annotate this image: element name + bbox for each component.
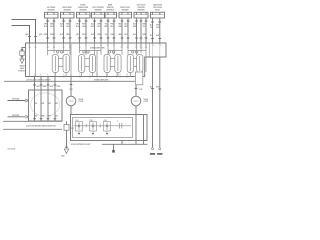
wire condenser 2 down xyxy=(135,106,137,115)
svg-text:UNDER: UNDER xyxy=(19,66,25,68)
svg-text:PNK: PNK xyxy=(69,89,73,91)
wire condenser 1 down xyxy=(70,106,72,115)
svg-text:WHT: WHT xyxy=(50,86,54,88)
left feed arrow 2 xyxy=(8,116,26,118)
svg-text:RIGHT REAR: RIGHT REAR xyxy=(62,6,72,9)
amp internal wires from pins xyxy=(30,44,147,77)
svg-text:11: 11 xyxy=(96,74,98,76)
svg-text:13: 13 xyxy=(106,74,108,76)
svg-text:BLK: BLK xyxy=(150,35,154,37)
svg-text:AUDIO UNIT (STEREO RADIO/CASSE: AUDIO UNIT (STEREO RADIO/CASSETTE) xyxy=(26,125,56,128)
svg-text:WHT: WHT xyxy=(156,25,160,27)
svg-text:WHT: WHT xyxy=(156,35,160,37)
svg-text:WHT: WHT xyxy=(82,24,86,26)
svg-text:C719: C719 xyxy=(139,89,143,91)
svg-text:5: 5 xyxy=(63,74,64,76)
speaker box B7 xyxy=(134,12,148,18)
pass-through wire in box (from N2) xyxy=(135,115,137,141)
svg-text:NOISE: NOISE xyxy=(144,99,150,101)
svg-text:15: 15 xyxy=(116,74,118,76)
speaker box B4 xyxy=(92,12,106,18)
sub-box F1 xyxy=(76,122,83,136)
svg-text:RED: RED xyxy=(57,86,61,88)
wire amp to radio 4 xyxy=(54,77,56,91)
connector dashes B6 xyxy=(121,20,130,22)
svg-text:92-1554: 92-1554 xyxy=(8,147,16,150)
svg-text:GRY: GRY xyxy=(34,103,38,105)
svg-text:YEL: YEL xyxy=(143,26,146,28)
internal bus xyxy=(74,125,132,127)
svg-text:SUBWOOFER: SUBWOOFER xyxy=(78,7,89,9)
svg-text:18: 18 xyxy=(153,45,155,47)
svg-text:YEL: YEL xyxy=(60,26,63,28)
sub-box F3 xyxy=(104,122,111,136)
svg-text:8: 8 xyxy=(54,74,55,76)
svg-text:COND: COND xyxy=(79,101,84,103)
svg-text:COND: COND xyxy=(144,101,149,103)
right wire R1 xyxy=(152,57,154,148)
out-of-page arrow xyxy=(20,59,24,64)
svg-text:LEFT DOOR: LEFT DOOR xyxy=(137,4,146,6)
svg-text:C: C xyxy=(117,121,119,123)
amp channel block 4 xyxy=(127,51,146,77)
speaker box B6 xyxy=(119,12,132,18)
svg-text:19: 19 xyxy=(160,45,162,47)
wire amp to radio 2 xyxy=(40,77,42,91)
svg-text:FUSE BOX: FUSE BOX xyxy=(18,70,27,72)
ground drop xyxy=(113,144,115,150)
radio wire labels mid xyxy=(34,103,59,105)
svg-text:WHT: WHT xyxy=(25,34,29,36)
wire amp to condenser 2 xyxy=(135,77,137,97)
svg-text:9: 9 xyxy=(89,74,90,76)
svg-text:BRN: BRN xyxy=(43,86,47,88)
connector C585 wire xyxy=(66,121,68,148)
branch connector to fuse box xyxy=(22,48,26,52)
relay step box divider xyxy=(148,43,150,57)
amplifier top pin numbers xyxy=(29,45,162,47)
terminal bars xyxy=(150,153,155,155)
condenser N2 xyxy=(131,96,141,106)
connector dashes B5 xyxy=(107,20,116,22)
ground dot xyxy=(112,150,115,153)
svg-text:WHT: WHT xyxy=(48,103,52,105)
svg-text:1: 1 xyxy=(70,74,71,76)
left feed wire B xyxy=(12,26,30,44)
dashes on radio wires xyxy=(33,84,56,86)
resistor mark R1 xyxy=(85,124,87,127)
svg-text:REAR WDW: REAR WDW xyxy=(153,3,162,6)
svg-text:RED: RED xyxy=(55,115,59,117)
wire amp to radio 3 xyxy=(47,77,49,91)
svg-text:RED: RED xyxy=(39,34,43,36)
svg-text:BRN: BRN xyxy=(41,103,45,105)
svg-text:WHT: WHT xyxy=(48,115,52,117)
svg-text:CH1: CH1 xyxy=(76,120,79,122)
svg-text:WINDOW: WINDOW xyxy=(107,7,114,9)
left feed arrow 1 xyxy=(8,100,26,102)
wire B7-c xyxy=(145,18,147,43)
speaker box B2 xyxy=(61,12,75,18)
svg-text:CH2: CH2 xyxy=(90,120,93,122)
svg-text:WHT: WHT xyxy=(82,34,86,36)
radio dial ellipse xyxy=(31,93,60,116)
svg-text:7: 7 xyxy=(79,74,80,76)
svg-text:YEL: YEL xyxy=(105,34,108,36)
out-of-page arrow C585 xyxy=(64,149,68,154)
svg-text:LOW VOLUME CONTROL CIRCUIT: LOW VOLUME CONTROL CIRCUIT xyxy=(26,79,50,81)
section rule xyxy=(4,80,137,82)
pass-through wire in box right xyxy=(143,115,145,141)
svg-text:YEL: YEL xyxy=(105,24,108,26)
svg-text:TWEETER: TWEETER xyxy=(137,7,145,9)
svg-text:WHT: WHT xyxy=(124,26,128,28)
svg-text:REAR: REAR xyxy=(108,3,113,6)
svg-text:NOISE: NOISE xyxy=(79,99,85,101)
svg-text:2: 2 xyxy=(34,74,35,76)
wire B6-a xyxy=(121,18,123,43)
wire amp to radio 1 xyxy=(34,77,36,91)
wire B2-a xyxy=(63,18,65,43)
wire B5-a xyxy=(107,18,109,43)
connector dashes B8 xyxy=(151,21,161,23)
arrow label xyxy=(18,66,27,73)
amplifier pin name smudges xyxy=(29,47,148,49)
radio bottom dashes xyxy=(33,118,56,120)
svg-text:RIGHT DOOR: RIGHT DOOR xyxy=(120,7,130,9)
svg-text:WHT: WHT xyxy=(50,26,54,28)
wire B1-a xyxy=(47,18,49,43)
wire B3-a xyxy=(79,18,81,43)
audio unit label band xyxy=(3,120,62,122)
svg-text:NOISE SUPPRESSOR UNIT: NOISE SUPPRESSOR UNIT xyxy=(71,144,90,146)
noise suppressor outer box xyxy=(71,115,148,141)
wire B7-a xyxy=(136,18,138,43)
radio unit box xyxy=(29,90,63,121)
svg-text:DEFOGGER: DEFOGGER xyxy=(153,7,163,9)
sub-box F2 xyxy=(90,122,97,136)
svg-text:GRY: GRY xyxy=(36,86,40,88)
svg-text:YEL: YEL xyxy=(150,27,153,29)
svg-text:WHEEL: WHEEL xyxy=(80,4,86,6)
connector dashes left feeds xyxy=(28,36,37,38)
relay step internal wires xyxy=(152,44,154,57)
svg-text:GND: GND xyxy=(61,156,65,158)
svg-text:6: 6 xyxy=(47,74,48,76)
speaker box B5 xyxy=(105,12,117,18)
connector C719 box xyxy=(135,72,142,85)
wire B4-b xyxy=(100,18,102,43)
amp channel block 1 xyxy=(48,51,71,77)
connector dashes B4 xyxy=(93,20,102,22)
connector dashes B7 xyxy=(135,20,147,22)
amplifier top pin ticks xyxy=(30,42,160,44)
speaker box B3 xyxy=(77,12,91,18)
connector dashes B3 xyxy=(78,20,87,22)
wire B6-b xyxy=(127,18,129,43)
svg-text:WHT: WHT xyxy=(156,87,160,89)
svg-text:BLK: BLK xyxy=(150,25,154,27)
svg-text:WHT/RED: WHT/RED xyxy=(12,115,20,117)
svg-text:17: 17 xyxy=(119,74,121,76)
radio bottom labels xyxy=(34,115,59,117)
connector dashes B2 xyxy=(62,20,71,22)
wire B7-b xyxy=(140,18,142,43)
wire B8-a xyxy=(152,18,154,43)
speaker box B1 xyxy=(45,12,59,18)
right wire R2 xyxy=(159,57,161,148)
connector dash on C585 wire xyxy=(65,146,68,148)
stereo amplifier U1 box xyxy=(26,43,167,77)
svg-text:LEFT TWEETER: LEFT TWEETER xyxy=(92,7,104,9)
condenser N1 xyxy=(66,96,76,106)
svg-text:WHT: WHT xyxy=(91,26,95,28)
wire B4-a xyxy=(94,18,96,43)
wire B8-b xyxy=(159,18,161,43)
resistor mark R2 xyxy=(99,124,101,127)
dashes on right wires xyxy=(151,88,161,91)
svg-text:4: 4 xyxy=(40,74,41,76)
sub-box stubs dashes xyxy=(78,133,108,135)
svg-text:CH3: CH3 xyxy=(104,120,107,122)
wire color labels above amplifier xyxy=(44,34,160,37)
ground bus under box xyxy=(102,143,148,145)
capacitor C9 xyxy=(120,123,122,129)
svg-text:RED: RED xyxy=(55,103,59,105)
svg-text:LEFT REAR: LEFT REAR xyxy=(47,6,56,9)
wire B3-b xyxy=(85,18,87,43)
amp bottom pin numbers xyxy=(34,74,137,76)
amp channel block 2 xyxy=(79,51,102,77)
wire B5-b xyxy=(113,18,115,43)
svg-text:RD: RD xyxy=(69,47,72,49)
connector dashes B1 xyxy=(46,20,55,22)
svg-text:STEREO AMPLIFIER: STEREO AMPLIFIER xyxy=(94,78,109,81)
svg-text:GRY: GRY xyxy=(34,115,38,117)
wire B1-b xyxy=(53,18,55,43)
svg-text:STEREO AMPLIFIER: STEREO AMPLIFIER xyxy=(90,46,105,49)
noise suppressor inner box xyxy=(73,118,133,138)
radio internal wires xyxy=(35,90,56,121)
amp channel block 3 xyxy=(104,51,122,77)
second connector dash row above amplifier xyxy=(46,37,161,40)
terminal beads xyxy=(152,148,154,150)
left feed wire A xyxy=(12,20,36,44)
wire amp to condenser 1 xyxy=(70,77,72,97)
speaker box B8 xyxy=(151,12,165,18)
svg-text:WHT/GRN: WHT/GRN xyxy=(12,99,20,101)
connector C585 xyxy=(64,125,69,131)
svg-text:19: 19 xyxy=(126,74,128,76)
wire B2-b xyxy=(69,18,71,43)
amp bottom pin ticks xyxy=(35,76,137,78)
